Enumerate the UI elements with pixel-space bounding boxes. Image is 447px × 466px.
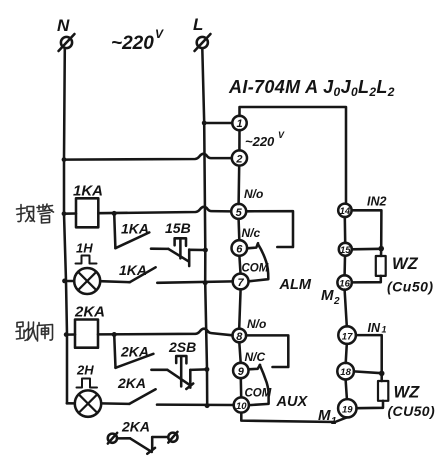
svg-text:15B: 15B xyxy=(165,220,191,236)
terminal 19 xyxy=(338,399,356,417)
terminal 14 xyxy=(338,204,351,217)
wire from terminal 1 up and right to right rail xyxy=(240,107,347,204)
wire lamp contact to terminal 10 xyxy=(157,403,234,406)
terminal L xyxy=(193,15,211,51)
junction dot 2SB wire / L rail xyxy=(204,367,209,372)
terminal 18 xyxy=(337,363,354,380)
svg-text:~220: ~220 xyxy=(111,33,154,54)
junction dot N rail / coil 2 wire xyxy=(64,332,69,337)
svg-text:M: M xyxy=(321,287,334,304)
pushbutton 15B (NC) xyxy=(165,220,205,266)
label ~220V small xyxy=(245,130,285,149)
svg-text:18: 18 xyxy=(340,367,351,378)
wire terminal 18 to 19 xyxy=(346,380,347,400)
svg-text:(CU50): (CU50) xyxy=(388,403,436,419)
wire terminal 14 branch right and down xyxy=(352,210,382,256)
wire L rail to terminal 1 xyxy=(204,122,232,125)
terminal N xyxy=(57,16,75,51)
terminal 10 xyxy=(234,397,249,412)
svg-text:8: 8 xyxy=(236,331,243,343)
svg-text:15: 15 xyxy=(340,245,351,256)
svg-text:2: 2 xyxy=(333,296,340,307)
wire terminal 17 branch right and down xyxy=(356,335,382,381)
label 跳闸 (trip) xyxy=(16,322,53,341)
junction dot N rail / terminal 2 wire xyxy=(62,157,67,162)
svg-text:2SB: 2SB xyxy=(168,339,196,355)
svg-text:16: 16 xyxy=(339,278,350,289)
svg-text:AUX: AUX xyxy=(276,394,309,410)
terminal 1 xyxy=(232,116,246,130)
contact 1KA (lamp circuit) xyxy=(100,262,155,282)
svg-text:COM: COM xyxy=(245,388,272,400)
N/C fixed contact arm from terminal 9 xyxy=(249,365,261,370)
svg-text:9: 9 xyxy=(238,366,245,378)
wire terminal 15 to 16 xyxy=(343,256,346,275)
junction dot 15B wire / L rail xyxy=(203,248,208,253)
relay coil 2KA xyxy=(74,304,105,348)
label M2 xyxy=(321,287,340,307)
junction dot RTD2 xyxy=(379,371,385,377)
wire terminal 15 to junction xyxy=(352,248,381,251)
N/O fixed contact bracket from terminal 5 xyxy=(246,211,293,247)
svg-text:IN2: IN2 xyxy=(367,195,387,209)
terminal 16 xyxy=(337,275,351,289)
wire N rail through 2KA coil to terminal 8 with hop over L rail xyxy=(66,333,75,336)
svg-text:ALM: ALM xyxy=(279,277,312,293)
junction dot RTD1 xyxy=(378,246,384,252)
COM moving blade from terminal 7 xyxy=(249,244,269,281)
svg-text:IN: IN xyxy=(368,321,381,335)
wire terminal 16 to 17 xyxy=(345,290,347,327)
svg-text:2H: 2H xyxy=(76,363,94,378)
terminal 2 xyxy=(232,150,247,165)
wire L rail xyxy=(202,49,207,406)
svg-text:M: M xyxy=(318,407,331,424)
svg-text:14: 14 xyxy=(340,206,351,217)
wire resistor to terminal 19 xyxy=(357,401,384,408)
indicator lamp 1H xyxy=(74,241,100,295)
terminal 15 xyxy=(339,243,352,256)
svg-text:1KA: 1KA xyxy=(73,183,103,200)
wire N rail through 1KA coil to terminal 5 with hop over L rail xyxy=(64,212,76,215)
wire terminal 5 to 6 xyxy=(237,219,240,240)
junction dot seal-in branch xyxy=(112,211,117,216)
junction dot N rail / lamp wire xyxy=(62,279,67,284)
svg-text:L: L xyxy=(193,15,203,34)
contact 2KA (seal-in, open) xyxy=(116,344,168,370)
svg-text:2: 2 xyxy=(235,154,242,166)
wire terminal 18 to junction xyxy=(354,371,382,373)
junction dot L rail / terminal 1 wire xyxy=(202,121,207,126)
svg-text:N/c: N/c xyxy=(242,226,261,240)
svg-text:2KA: 2KA xyxy=(74,304,105,321)
terminal 17 xyxy=(338,326,356,344)
wire N rail to lamp 1H xyxy=(65,280,75,283)
svg-text:(Cu50): (Cu50) xyxy=(387,279,434,295)
junction dot lamp 2 wire / L rail xyxy=(205,403,210,408)
svg-text:V: V xyxy=(278,130,285,140)
svg-text:N/C: N/C xyxy=(245,350,266,364)
svg-text:V: V xyxy=(155,27,164,41)
COM moving blade from terminal 10 xyxy=(250,365,269,405)
N/O fixed contact bracket from terminal 8 xyxy=(246,335,288,367)
svg-text:N/o: N/o xyxy=(244,187,263,201)
wire terminal 14 to 15 xyxy=(344,217,347,243)
wire terminal 7 to 8 xyxy=(239,289,240,328)
terminal 7 xyxy=(233,274,249,290)
wire resistor to terminal 16 wire xyxy=(352,276,381,283)
svg-text:17: 17 xyxy=(342,331,353,342)
svg-text:2KA: 2KA xyxy=(121,419,150,435)
relay coil 1KA xyxy=(73,183,103,228)
wire terminal 17 to 18 xyxy=(346,344,347,363)
wire terminal 10 to terminal 19 (M1 link) xyxy=(241,413,347,422)
junction dot N rail / coil wire xyxy=(62,211,67,216)
label 报警 (alarm) xyxy=(17,204,54,223)
svg-text:7: 7 xyxy=(238,277,245,289)
pushbutton 2SB (NC) xyxy=(167,339,207,389)
svg-text:1: 1 xyxy=(382,325,387,335)
contact 1KA (seal-in, open) xyxy=(115,221,168,249)
resistor WZ (Cu50) upper xyxy=(376,255,434,295)
N/C fixed contact arm from terminal 6 xyxy=(247,243,258,248)
svg-text:1: 1 xyxy=(331,416,337,427)
svg-text:6: 6 xyxy=(236,244,243,256)
wire terminal 8 to 9 xyxy=(239,342,240,363)
indicator lamp 2H xyxy=(75,363,101,417)
svg-text:1: 1 xyxy=(236,118,242,130)
wire terminal 6 to 7 xyxy=(239,256,240,273)
wire N rail to terminal 2 with hop over L rail xyxy=(64,154,232,160)
wire terminal 2 to 5 xyxy=(237,166,240,204)
svg-text:N: N xyxy=(57,16,70,35)
terminal 5 xyxy=(231,204,246,219)
terminal 6 xyxy=(232,240,248,256)
wire N rail xyxy=(64,49,67,404)
label ~220V xyxy=(111,27,164,54)
svg-text:WZ: WZ xyxy=(392,255,419,273)
resistor WZ (CU50) lower xyxy=(378,381,435,419)
svg-text:10: 10 xyxy=(236,401,247,412)
wire N rail to lamp 2H xyxy=(67,402,75,405)
contact 2KA (lamp circuit) xyxy=(101,375,155,404)
junction dot lamp wire / L rail xyxy=(203,280,208,285)
junction dot seal-in branch 2 xyxy=(112,332,117,337)
wire lamp contact to terminal 7 xyxy=(157,281,232,282)
terminal 9 xyxy=(233,363,248,378)
svg-text:5: 5 xyxy=(236,207,243,219)
wire junction down to 1KA contact xyxy=(114,213,115,248)
label M1 xyxy=(318,407,337,427)
svg-text:1H: 1H xyxy=(76,241,93,256)
label IN1 xyxy=(368,321,387,335)
wire junction down to 2KA contact xyxy=(114,335,115,368)
svg-text:COM: COM xyxy=(242,263,269,275)
terminal 8 xyxy=(233,329,247,343)
svg-text:2KA: 2KA xyxy=(117,375,146,391)
svg-text:N/o: N/o xyxy=(247,317,266,331)
svg-text:WZ: WZ xyxy=(394,384,421,402)
svg-text:~220: ~220 xyxy=(245,134,275,149)
label AI-704M A J0J0L2L2 xyxy=(228,77,395,99)
free contact 2KA (external) xyxy=(108,419,178,454)
svg-text:19: 19 xyxy=(342,405,353,416)
wire terminal 1 to 2 xyxy=(238,130,241,150)
wire terminal 9 to 10 xyxy=(240,378,243,397)
